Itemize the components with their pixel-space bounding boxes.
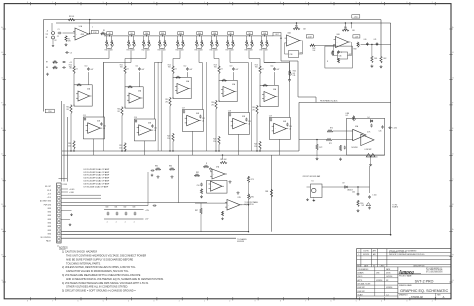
svg-text:C81: C81 — [114, 207, 117, 209]
svg-text:.047: .047 — [189, 69, 192, 71]
svg-text:R22: R22 — [167, 136, 170, 138]
svg-text:6/17/96: 6/17/96 — [363, 251, 368, 253]
svg-text:2) UNLESS NOTED, RESISTOR VALU: 2) UNLESS NOTED, RESISTOR VALUES IN OHMS… — [62, 266, 136, 269]
svg-text:R16: R16 — [117, 109, 120, 111]
svg-text:K1: K1 — [312, 181, 314, 183]
svg-text:R12: R12 — [168, 64, 171, 66]
svg-text:SVT-2 PRO: SVT-2 PRO — [415, 279, 434, 283]
svg-text:EQ SWITCH: EQ SWITCH — [245, 204, 255, 206]
svg-text:R20: R20 — [68, 143, 71, 145]
svg-text:ST. LOUIS, MISSOURI: ST. LOUIS, MISSOURI — [426, 271, 443, 273]
svg-text:R72: R72 — [319, 147, 322, 149]
svg-text:220: 220 — [254, 146, 257, 148]
svg-text:0: 0 — [229, 2, 230, 4]
svg-text:1: 1 — [358, 254, 359, 256]
svg-text:F: F — [1, 103, 2, 105]
svg-text:C 1/50: C 1/50 — [392, 128, 397, 130]
svg-text:670/06-02: 670/06-02 — [411, 295, 423, 299]
svg-text:U2 RC4558P DUAL OP AMP: U2 RC4558P DUAL OP AMP — [84, 171, 110, 174]
svg-text:R62: R62 — [384, 58, 387, 60]
svg-text:F: F — [452, 103, 453, 105]
svg-text:R79: R79 — [251, 179, 254, 181]
svg-text:C 100: C 100 — [372, 194, 376, 196]
svg-text:2K7: 2K7 — [66, 109, 69, 111]
svg-text:SD CONTROL: SD CONTROL — [41, 237, 52, 239]
svg-text:220: 220 — [119, 147, 122, 149]
svg-text:LVL: LVL — [346, 115, 349, 117]
svg-text:C41: C41 — [374, 39, 377, 41]
svg-text:U1 RC4558P DUAL OP AMP: U1 RC4558P DUAL OP AMP — [84, 168, 110, 171]
svg-text:0: 0 — [229, 300, 230, 302]
svg-text:U7B: U7B — [238, 197, 241, 199]
svg-text:PWR LED: PWR LED — [44, 204, 52, 206]
svg-text:GRAPHIC EQ. SCHEMATIC: GRAPHIC EQ. SCHEMATIC — [400, 289, 448, 293]
svg-text:OTHER VOLTAGES ARE ALL IN COND: OTHER VOLTAGES ARE ALL IN CONDITIONS STA… — [66, 286, 128, 289]
svg-text:R82: R82 — [196, 172, 199, 174]
svg-text:4) VOLTAGES IN RECTANGLES ARE: 4) VOLTAGES IN RECTANGLES ARE RMS SIGNAL… — [62, 282, 149, 285]
svg-text:6/1/96: 6/1/96 — [386, 273, 391, 275]
svg-text:07/08/96: 07/08/96 — [376, 280, 382, 282]
svg-text:U6B: U6B — [283, 121, 286, 123]
svg-text:TO PD: TO PD — [392, 205, 398, 207]
svg-text:C3: C3 — [70, 52, 72, 54]
svg-text:DESCRIPTION: DESCRIPTION — [413, 265, 425, 267]
svg-text:4558: 4558 — [81, 34, 85, 36]
svg-text:OUT: OUT — [275, 34, 279, 36]
svg-text:C24: C24 — [289, 126, 292, 128]
svg-text:3) VOLTAGES ARE MEASURED WITH: 3) VOLTAGES ARE MEASURED WITH A 4 MEGOHM… — [62, 274, 141, 277]
svg-text:R61: R61 — [374, 58, 377, 60]
svg-text:U4 RC4558P DUAL OP AMP: U4 RC4558P DUAL OP AMP — [84, 177, 110, 180]
svg-text:C40: C40 — [364, 39, 367, 41]
svg-text:.01: .01 — [248, 123, 250, 125]
svg-text:CRB: CRB — [376, 273, 379, 275]
svg-text:R19: R19 — [252, 107, 255, 109]
svg-text:6: 6 — [331, 2, 332, 4]
svg-text:C50: C50 — [197, 185, 200, 187]
svg-text:.047: .047 — [235, 69, 238, 71]
svg-text:R32: R32 — [142, 50, 145, 52]
svg-text:R30: R30 — [105, 50, 108, 52]
svg-text:C14: C14 — [270, 65, 273, 67]
svg-text:5: 5 — [103, 300, 104, 302]
svg-text:R70: R70 — [330, 127, 333, 129]
svg-text:R21: R21 — [119, 145, 122, 147]
svg-text:TIP: TIP — [46, 34, 48, 36]
svg-text:1) CAUTION SHOCK HAZARD!!: 1) CAUTION SHOCK HAZARD!! — [62, 251, 98, 254]
svg-text:U3 RC4558P DUAL OP AMP: U3 RC4558P DUAL OP AMP — [84, 174, 110, 177]
svg-text:.047: .047 — [90, 69, 93, 71]
svg-text:AND 10 MEGOHM DIGITAL VOLTMETE: AND 10 MEGOHM DIGITAL VOLTMETER. EQ IN, … — [66, 278, 164, 281]
svg-text:+15: +15 — [69, 62, 72, 64]
svg-text:250: 250 — [48, 111, 51, 113]
svg-text:R36: R36 — [210, 50, 213, 52]
svg-text:C19: C19 — [269, 116, 272, 118]
svg-text:9: 9 — [255, 2, 256, 4]
svg-text:MC4558: MC4558 — [352, 147, 358, 149]
svg-text:3: 3 — [153, 2, 154, 4]
svg-text:.1: .1 — [115, 221, 116, 223]
svg-text:R1: R1 — [68, 39, 70, 41]
svg-text:1=1: 1=1 — [386, 294, 389, 296]
svg-text:D9: D9 — [343, 183, 345, 185]
svg-text:A: A — [443, 295, 445, 299]
svg-text:220: 220 — [213, 141, 216, 143]
svg-text:8: 8 — [27, 300, 28, 302]
svg-text:C16: C16 — [134, 117, 137, 119]
svg-text:7: 7 — [52, 2, 53, 4]
svg-text:ST. LOUIS MUSIC CO.: ST. LOUIS MUSIC CO. — [426, 268, 443, 270]
svg-text:2K7: 2K7 — [211, 104, 214, 106]
svg-text:R18: R18 — [211, 102, 214, 104]
svg-text:C13: C13 — [229, 65, 232, 67]
svg-text:R90: R90 — [360, 203, 363, 205]
svg-text:4: 4 — [128, 2, 129, 4]
svg-text:U6B: U6B — [337, 34, 340, 36]
svg-text:R2: R2 — [55, 40, 57, 42]
svg-text:3: 3 — [406, 2, 407, 4]
svg-text:.22: .22 — [57, 36, 59, 38]
svg-text:2K7: 2K7 — [117, 111, 120, 113]
svg-text:R87: R87 — [195, 210, 198, 212]
svg-text:68P: 68P — [349, 54, 352, 56]
svg-text:5) CIRCUIT GROUND = SOFT GR: 5) CIRCUIT GROUND = SOFT GROUND (=) CHAS… — [62, 290, 136, 293]
svg-text:3: 3 — [153, 300, 154, 302]
svg-text:R52: R52 — [313, 48, 316, 50]
svg-text:U4B: U4B — [196, 113, 199, 115]
svg-text:10/25/95: 10/25/95 — [363, 254, 369, 256]
svg-text:R5: R5 — [103, 30, 105, 32]
svg-text:220: 220 — [68, 145, 71, 147]
svg-text:2K7: 2K7 — [252, 109, 255, 111]
svg-text:C82: C82 — [123, 207, 126, 209]
svg-text:5: 5 — [356, 2, 357, 4]
svg-text:07/08/96: 07/08/96 — [386, 287, 392, 289]
svg-text:D6: D6 — [376, 157, 378, 159]
svg-text:R88: R88 — [265, 191, 268, 193]
svg-text:2: 2 — [432, 2, 433, 4]
svg-text:220: 220 — [167, 138, 170, 140]
svg-text:R80 10K: R80 10K — [220, 159, 227, 161]
svg-text:.01: .01 — [289, 128, 291, 130]
svg-text:9: 9 — [255, 300, 256, 302]
svg-text:68P: 68P — [300, 53, 303, 55]
svg-text:6: 6 — [78, 300, 79, 302]
svg-text:2: 2 — [179, 2, 180, 4]
svg-text:GROUND: GROUND — [237, 241, 245, 243]
svg-text:U5B: U5B — [242, 116, 245, 118]
svg-text:R13: R13 — [214, 64, 217, 66]
svg-text:U2B: U2B — [97, 120, 100, 122]
svg-text:.1: .1 — [124, 221, 125, 223]
svg-text:.047: .047 — [276, 69, 279, 71]
svg-text:6: 6 — [331, 300, 332, 302]
svg-text:CHK'D: CHK'D — [358, 276, 364, 278]
svg-text:C10: C10 — [84, 65, 87, 67]
svg-text:C23: C23 — [248, 121, 251, 123]
svg-text:5: 5 — [356, 300, 357, 302]
svg-text:U6 RC4558P DUAL OP AMP: U6 RC4558P DUAL OP AMP — [84, 183, 110, 186]
svg-text:C18: C18 — [228, 111, 231, 113]
svg-text:6: 6 — [78, 2, 79, 4]
svg-text:R58: R58 — [354, 49, 357, 51]
svg-text:4: 4 — [381, 2, 382, 4]
svg-text:5: 5 — [103, 2, 104, 4]
svg-text:R14: R14 — [255, 64, 258, 66]
svg-text:CON8: CON8 — [62, 184, 67, 186]
svg-text:3: 3 — [406, 300, 407, 302]
svg-text:.01: .01 — [202, 120, 204, 122]
svg-text:R11: R11 — [120, 64, 123, 66]
svg-text:SD OUT: SD OUT — [45, 186, 51, 188]
svg-text:2: 2 — [179, 300, 180, 302]
svg-text:R71: R71 — [329, 143, 332, 145]
svg-text:R86: R86 — [169, 165, 172, 167]
svg-text:U7 MC4558 DUAL OP AMP: U7 MC4558 DUAL OP AMP — [84, 186, 109, 189]
svg-text:LINE: LINE — [346, 113, 350, 115]
svg-text:7: 7 — [305, 300, 306, 302]
svg-text:8: 8 — [280, 2, 281, 4]
svg-text:C36: C36 — [339, 56, 342, 58]
svg-text:1N4003: 1N4003 — [347, 190, 353, 192]
svg-text:250: 250 — [354, 16, 357, 18]
svg-text:U3B: U3B — [148, 122, 151, 124]
svg-text:10/25/96: 10/25/96 — [386, 276, 392, 278]
svg-text:R64: R64 — [293, 71, 296, 73]
svg-text:2: 2 — [432, 300, 433, 302]
svg-text:R17: R17 — [165, 99, 168, 101]
svg-text:R85: R85 — [155, 165, 158, 167]
svg-text:C11: C11 — [135, 65, 138, 67]
svg-text:R10: R10 — [69, 64, 72, 66]
svg-text:R33: R33 — [158, 50, 161, 52]
svg-text:4: 4 — [128, 300, 129, 302]
svg-text:.1: .1 — [133, 221, 134, 223]
svg-text:C22: C22 — [202, 118, 205, 120]
svg-text:C83: C83 — [132, 207, 135, 209]
svg-text:R8: R8 — [46, 67, 48, 69]
svg-text:.01: .01 — [154, 130, 156, 132]
svg-text:R37: R37 — [226, 50, 229, 52]
svg-text:D4: D4 — [368, 117, 370, 119]
svg-text:LVL: LVL — [293, 75, 296, 77]
svg-text:R15: R15 — [66, 107, 69, 109]
svg-text:2: 2 — [92, 27, 93, 29]
svg-text:R38: R38 — [245, 50, 248, 52]
svg-text:R7: R7 — [46, 62, 48, 64]
svg-text:C45: C45 — [379, 131, 382, 133]
svg-text:.047: .047 — [141, 69, 144, 71]
svg-text:CAPACITOR VALUES IN MICROFARAD: CAPACITOR VALUES IN MICROFARADS, 50V-10%… — [66, 270, 129, 273]
svg-text:R23: R23 — [213, 139, 216, 141]
svg-text:C15: C15 — [83, 115, 86, 117]
svg-text:U5 RC4558P DUAL OP AMP: U5 RC4558P DUAL OP AMP — [84, 180, 110, 183]
svg-text:4: 4 — [381, 300, 382, 302]
svg-text:C1: C1 — [58, 29, 60, 31]
svg-text:1: 1 — [204, 2, 205, 4]
svg-text:2K7: 2K7 — [165, 101, 168, 103]
svg-text:R81: R81 — [251, 197, 254, 199]
svg-text:C12: C12 — [183, 65, 186, 67]
svg-text:C21: C21 — [154, 128, 157, 130]
svg-text:R35: R35 — [195, 50, 198, 52]
svg-text:LOW IMP: LOW IMP — [365, 149, 372, 151]
svg-text:2: 2 — [358, 251, 359, 253]
svg-text:7: 7 — [305, 2, 306, 4]
svg-text:R39: R39 — [260, 50, 263, 52]
svg-text:R34: R34 — [176, 50, 179, 52]
svg-text:AND BE SURE POWER SUPPLY IS DI: AND BE SURE POWER SUPPLY IS DISCHARGED B… — [66, 258, 133, 261]
svg-text:.1: .1 — [106, 221, 107, 223]
svg-text:C36: C36 — [290, 54, 293, 56]
svg-text:THIS UNIT CONTAINS HAZARDOUS V: THIS UNIT CONTAINS HAZARDOUS VOLTAGE. DI… — [66, 255, 146, 258]
svg-text:7: 7 — [52, 300, 53, 302]
svg-text:+4 LED: +4 LED — [69, 189, 75, 191]
svg-text:-4 LED: -4 LED — [69, 192, 75, 194]
svg-text:R24: R24 — [254, 144, 257, 146]
svg-text:C17: C17 — [182, 108, 185, 110]
svg-text:8: 8 — [27, 2, 28, 4]
svg-text:C80: C80 — [105, 207, 108, 209]
svg-text:R3 10K: R3 10K — [69, 16, 75, 18]
svg-text:TOUCHING INTERNAL PARTS.: TOUCHING INTERNAL PARTS. — [66, 262, 101, 265]
svg-text:J1: J1 — [47, 31, 49, 33]
svg-text:C60: C60 — [352, 191, 355, 193]
svg-text:8: 8 — [280, 300, 281, 302]
svg-text:R31: R31 — [127, 50, 130, 52]
svg-text:1: 1 — [204, 300, 205, 302]
